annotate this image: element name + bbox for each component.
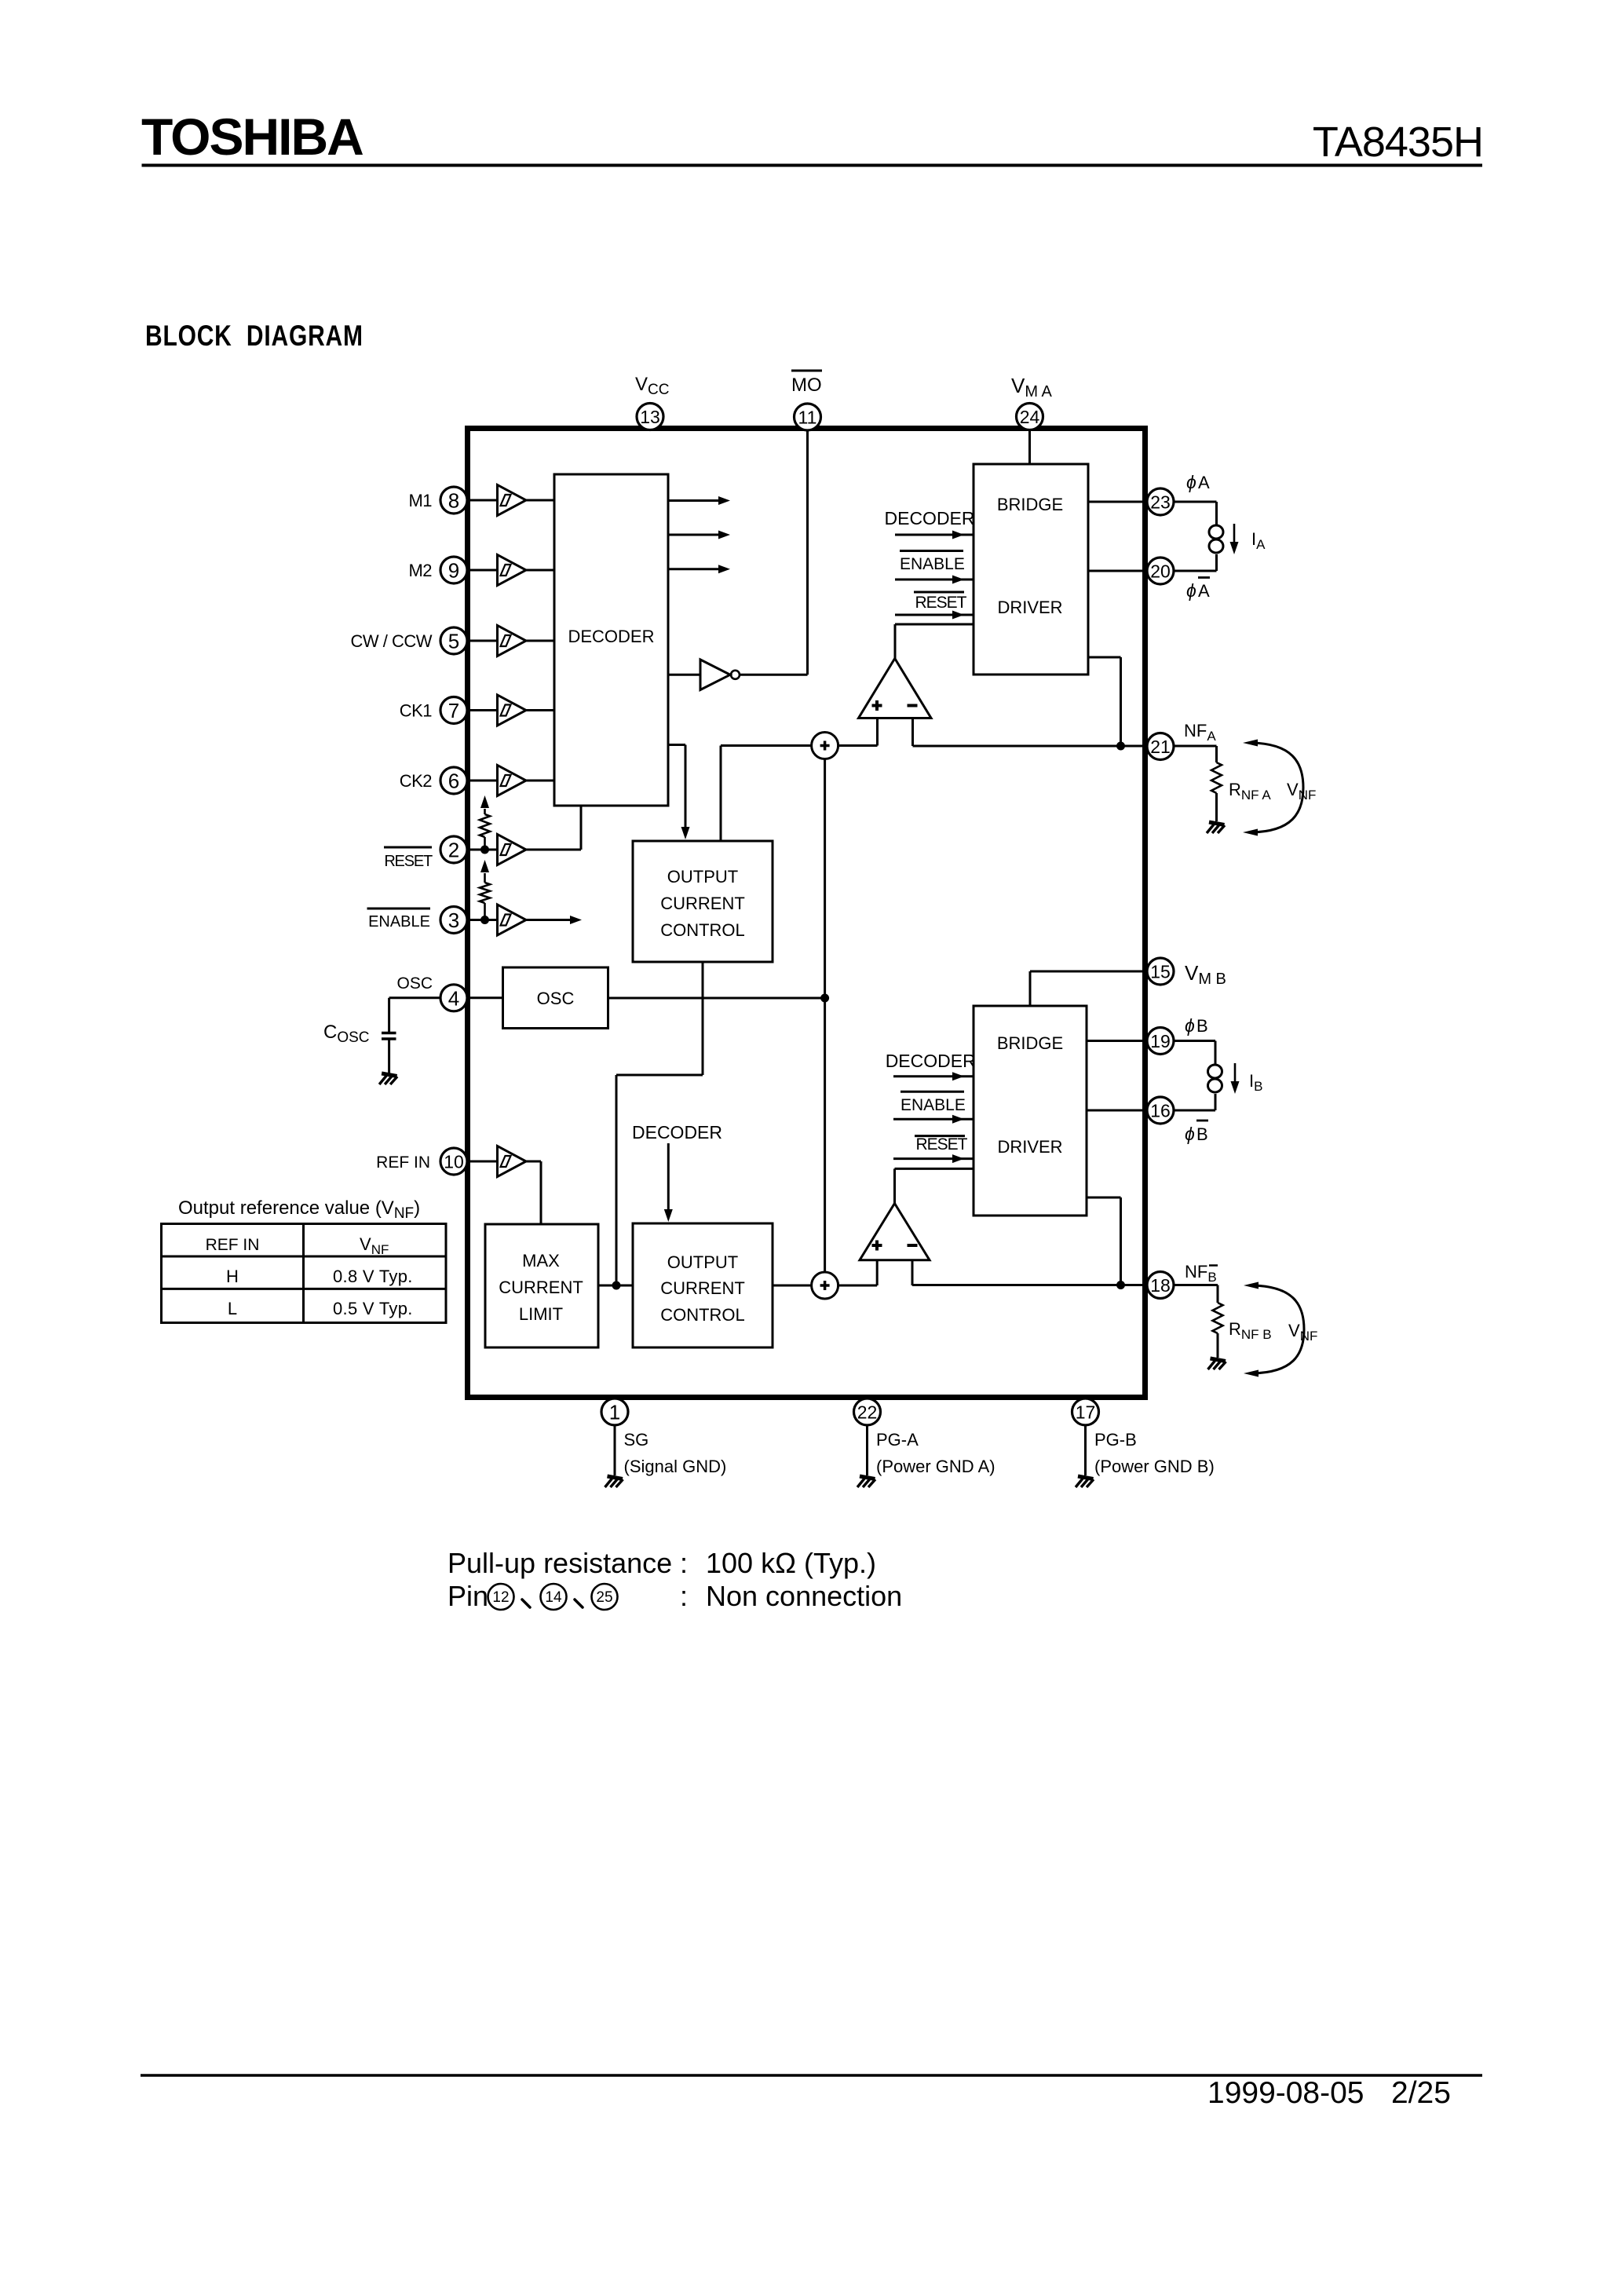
opamp-B input stubs [877, 1260, 912, 1285]
wire decoder to OCC-A stub [668, 745, 690, 840]
label (Power GND B) [1094, 1457, 1215, 1476]
label ENABLE arrow B [893, 1091, 974, 1123]
svg-text:CONTROL: CONTROL [660, 920, 745, 940]
part number TA8435H [1313, 119, 1483, 166]
label VNF A [1287, 780, 1316, 803]
svg-text:11: 11 [798, 408, 817, 428]
label PG-A [876, 1430, 919, 1450]
wire coil A to pin20 [1174, 554, 1217, 571]
table cell H [226, 1267, 239, 1286]
svg-text:10: 10 [444, 1152, 464, 1172]
label (Power GND A) [876, 1457, 995, 1476]
svg-text:OSC: OSC [396, 974, 433, 993]
wire buffer CK1 to decoder [526, 709, 554, 711]
pin 10 (REF IN) [440, 1148, 467, 1175]
svg-text:RESET: RESET [915, 594, 967, 612]
label VMB [1185, 961, 1226, 988]
label RNF B [1229, 1319, 1272, 1342]
svg-text:15: 15 [1150, 962, 1171, 982]
wire buffer REFIN to max-current-limit [526, 1161, 541, 1224]
capacitor COSC [382, 1033, 396, 1074]
pin 7 (CK1) [440, 697, 467, 724]
wire VMA to bridge A [1028, 430, 1031, 464]
block BRIDGE DRIVER A [974, 464, 1088, 675]
svg-text:CURRENT: CURRENT [499, 1278, 583, 1297]
svg-text:0.8 V Typ.: 0.8 V Typ. [333, 1267, 413, 1286]
svg-text:5: 5 [448, 630, 459, 653]
svg-text::: : [680, 1547, 688, 1579]
label M1 [408, 491, 432, 510]
svg-text:9: 9 [448, 559, 459, 583]
svg-text:CW / CCW: CW / CCW [350, 631, 432, 651]
svg-text::: : [680, 1580, 688, 1612]
table title Output reference value [178, 1197, 420, 1222]
node dot NF-B [1116, 1281, 1125, 1289]
svg-text:(Power GND A): (Power GND A) [876, 1457, 995, 1476]
ground for pin 17 [1076, 1476, 1094, 1487]
label ENABLE with overline [367, 909, 431, 930]
svg-text:23: 23 [1150, 492, 1171, 513]
wire buffer CW / CCW to decoder [526, 640, 554, 642]
wire pin3 to buffer [468, 919, 498, 921]
svg-text:LIMIT: LIMIT [519, 1304, 563, 1324]
svg-text:MO: MO [791, 375, 822, 396]
wire NF-A line [913, 745, 1147, 748]
wire pin4 to COSC [389, 998, 440, 1032]
svg-text:B: B [1196, 1016, 1208, 1036]
pin 6 (CK2) [440, 767, 467, 794]
label NFA [1184, 721, 1216, 744]
wire OCC-B to summing B [773, 1285, 812, 1287]
svg-text:4: 4 [448, 986, 459, 1010]
pin 3 (ENABLE) [440, 907, 467, 934]
svg-text:MAX: MAX [522, 1251, 560, 1270]
wire RNFA to ground [1215, 793, 1218, 821]
VNF arc arrow B [1244, 1282, 1304, 1377]
pin 22 (PG-A) [854, 1398, 881, 1425]
pin 21 (NF A) [1147, 733, 1174, 760]
svg-text:CK1: CK1 [400, 701, 433, 721]
wire driver-B stub to NF-B node [1087, 1197, 1121, 1285]
svg-text:ENABLE: ENABLE [368, 913, 430, 930]
block OUTPUT CURRENT CONTROL B [633, 1223, 773, 1347]
svg-text:DECODER: DECODER [885, 508, 975, 528]
svg-text:REF IN: REF IN [206, 1236, 260, 1254]
resistor RNFA [1211, 762, 1222, 793]
wire buffer RESET to decoder bottom [526, 806, 581, 850]
input buffer CK1 [498, 695, 527, 726]
node dot OSC line [820, 994, 829, 1003]
opamp-A input stubs [878, 718, 913, 747]
svg-text:TOSHIBA: TOSHIBA [141, 108, 363, 166]
svg-text:BRIDGE: BRIDGE [997, 1033, 1063, 1053]
label OCC-A text [660, 867, 745, 940]
svg-text:18: 18 [1150, 1275, 1171, 1296]
block OSC [503, 967, 608, 1029]
svg-text:(Power GND B): (Power GND B) [1094, 1457, 1215, 1476]
pin 8 (M1) [440, 487, 467, 514]
svg-text:TA8435H: TA8435H [1313, 119, 1483, 166]
pull-up resistor on ENABLE [480, 860, 490, 920]
svg-text:RESET: RESET [384, 853, 433, 870]
title BLOCK DIAGRAM [145, 320, 363, 352]
block DECODER U1 [554, 474, 668, 806]
label COSC [323, 1022, 370, 1046]
svg-text:OUTPUT: OUTPUT [667, 1252, 738, 1272]
svg-text:Non connection: Non connection [706, 1580, 902, 1612]
label CW / CCW [350, 631, 432, 651]
svg-text:ENABLE: ENABLE [900, 555, 965, 573]
pin 1 (SG) [601, 1398, 628, 1425]
table cell 0.5V [333, 1299, 413, 1318]
label DRIVER A [997, 598, 1062, 617]
note pull-up resistance [448, 1547, 876, 1579]
table cell 0.8V [333, 1267, 413, 1286]
label DECODER inside [568, 627, 654, 646]
decoder output arrow 1 [668, 496, 730, 505]
label DECODER B arrow down [632, 1122, 722, 1222]
svg-text:DRIVER: DRIVER [997, 598, 1062, 617]
resistor RNFB [1213, 1303, 1223, 1333]
table box [162, 1224, 447, 1323]
svg-text:L: L [228, 1299, 237, 1318]
block MAX CURRENT LIMIT [485, 1224, 598, 1347]
table header VNF [360, 1234, 389, 1257]
wire buffer CK2 to decoder [526, 780, 554, 782]
wire pin7 to buffer [468, 709, 498, 711]
wire pin19 to coil B [1174, 1041, 1216, 1065]
svg-text:1999-08-05: 1999-08-05 [1207, 2076, 1364, 2110]
svg-text:BRIDGE: BRIDGE [997, 495, 1063, 514]
svg-text:22: 22 [857, 1402, 878, 1423]
wire inverter to MO line [740, 674, 808, 676]
pin 20 (phi A bar) [1147, 558, 1174, 584]
svg-text:DECODER: DECODER [886, 1051, 976, 1071]
wire summing-B to opamp-B plus [838, 1285, 878, 1287]
pin 24 (VMA) [1017, 404, 1043, 430]
svg-text:ϕ: ϕ [1186, 472, 1196, 492]
svg-text:20: 20 [1150, 561, 1171, 582]
svg-text:ϕ: ϕ [1185, 1015, 1195, 1036]
pin 2 (RESET) [440, 836, 467, 863]
wire pin18 to RNFB [1174, 1285, 1218, 1303]
block BRIDGE DRIVER B [974, 1006, 1087, 1216]
wire pin2 to buffer [468, 849, 498, 851]
svg-text:(Signal GND): (Signal GND) [624, 1457, 727, 1476]
pin 23 (phi A) [1147, 488, 1174, 515]
wire summing-A to OCC-A [721, 746, 812, 842]
svg-text:Pin: Pin [448, 1580, 488, 1612]
input buffer CK2 [498, 766, 527, 796]
label REF IN [376, 1153, 430, 1172]
header rule [142, 164, 1483, 167]
label SG [624, 1430, 649, 1450]
svg-text:17: 17 [1076, 1402, 1096, 1423]
current arrow IB [1231, 1063, 1240, 1094]
svg-text:Pull-up resistance: Pull-up resistance [448, 1547, 672, 1579]
svg-text:6: 6 [448, 770, 459, 793]
label VNF B [1288, 1321, 1317, 1344]
label BRIDGE B [997, 1033, 1063, 1053]
svg-text:16: 16 [1150, 1101, 1171, 1121]
svg-text:25: 25 [596, 1589, 612, 1606]
ground for RNFB [1208, 1358, 1226, 1369]
svg-text:M1: M1 [408, 491, 432, 510]
label ENABLE arrow A [895, 551, 974, 584]
svg-text:DECODER: DECODER [568, 627, 654, 646]
label OSC [396, 974, 433, 993]
label OSC inside [537, 989, 575, 1008]
wire pin4 to OSC box [468, 996, 503, 999]
svg-text:A: A [1198, 581, 1210, 601]
label MO with overline [791, 371, 822, 396]
label CK1 [400, 701, 433, 721]
svg-text:8: 8 [448, 489, 459, 513]
wire driver-A stub to NF node [1088, 657, 1121, 746]
svg-text:2: 2 [448, 839, 459, 862]
block OUTPUT CURRENT CONTROL A [633, 841, 773, 962]
svg-text:CURRENT: CURRENT [660, 1278, 745, 1298]
svg-text:13: 13 [640, 407, 660, 427]
pull-up resistor on RESET [480, 795, 490, 850]
pin 5 (CW / CCW) [440, 627, 467, 654]
wire pin5 to buffer [468, 640, 498, 642]
input buffer M2 [498, 555, 527, 586]
wire MO vertical [806, 431, 809, 675]
wire pin21 to RNFA [1174, 746, 1217, 762]
label IB [1249, 1071, 1262, 1094]
wire decoder to inverter [668, 674, 700, 676]
label DECODER arrow B [886, 1051, 976, 1080]
svg-text:CONTROL: CONTROL [660, 1305, 745, 1325]
wire buffer ENABLE output arrow [526, 916, 582, 924]
label RNF A [1229, 780, 1271, 803]
wire buffer M1 to decoder [526, 499, 554, 502]
wire bridge-A to pin23 [1088, 501, 1147, 503]
wire coil B to pin16 [1174, 1094, 1216, 1110]
op-amp B comparator [860, 1204, 930, 1260]
node dot on RESET wire [480, 846, 489, 854]
pin 15 (VMB) [1147, 958, 1174, 985]
ground for RNFA [1207, 822, 1225, 833]
svg-text:SG: SG [624, 1430, 649, 1450]
label IA [1251, 529, 1266, 552]
inductor coil A [1209, 525, 1223, 553]
label RESET arrow A [895, 592, 974, 620]
wire pin17 ground stem [1084, 1426, 1087, 1476]
svg-text:A: A [1198, 473, 1210, 492]
wire pin6 to buffer [468, 780, 498, 782]
wire pin22 ground stem [866, 1426, 868, 1476]
label BRIDGE A [997, 495, 1063, 514]
footer date and page [1207, 2076, 1451, 2110]
label MCL text [499, 1251, 583, 1324]
node dot on ENABLE wire [480, 916, 489, 924]
ground for COSC [379, 1073, 397, 1084]
wire NF-B line [912, 1284, 1147, 1286]
wire pin8 to buffer [468, 499, 498, 502]
svg-text:21: 21 [1150, 737, 1171, 757]
VNF arc arrow A [1243, 740, 1303, 836]
pin 17 (PG-B) [1072, 1398, 1099, 1425]
summing junction A [812, 733, 838, 759]
wire OSC out to node [608, 997, 825, 1000]
wire RNFB to ground [1217, 1333, 1219, 1358]
wire VMB to bridge B [1030, 971, 1147, 1006]
wire bridge-B to pin16 [1087, 1110, 1147, 1112]
wire buffer M2 to decoder [526, 569, 554, 572]
svg-text:Output reference value (VNF): Output reference value (VNF) [178, 1197, 420, 1222]
wire bridge-B to pin19 [1087, 1040, 1147, 1042]
svg-text:CK2: CK2 [400, 771, 433, 791]
pin 18 (NF B) [1147, 1272, 1174, 1299]
wire vertical summing A to B via OSC node [824, 759, 826, 1273]
svg-text:1: 1 [609, 1401, 620, 1424]
table cell L [228, 1299, 237, 1318]
wire pin10 to buffer [468, 1161, 498, 1163]
svg-text:ϕ: ϕ [1186, 580, 1196, 601]
wire pin1 ground stem [614, 1426, 616, 1476]
svg-text:19: 19 [1150, 1031, 1171, 1051]
node dot NF-A [1116, 742, 1125, 751]
svg-text:14: 14 [545, 1589, 562, 1606]
svg-text:BLOCK DIAGRAM: BLOCK DIAGRAM [145, 320, 363, 352]
svg-text:DRIVER: DRIVER [997, 1137, 1062, 1157]
pin 4 (OSC) [440, 985, 467, 1011]
decoder output arrow 2 [668, 531, 730, 539]
pin 9 (M2) [440, 557, 467, 583]
label DECODER arrow A [885, 508, 975, 539]
current arrow IA [1230, 524, 1239, 554]
pin 11 (MO) [795, 404, 821, 430]
ground for pin 1 [605, 1476, 623, 1487]
svg-text:OUTPUT: OUTPUT [667, 867, 738, 887]
inverter gate [700, 660, 740, 690]
svg-text:3: 3 [448, 909, 459, 932]
wire summing-A to opamp-A plus [838, 744, 878, 747]
svg-text:M2: M2 [408, 561, 432, 580]
svg-text:PG-B: PG-B [1094, 1430, 1137, 1450]
op-amp A comparator [859, 659, 932, 718]
wire MCL to OCC-B [598, 1285, 633, 1287]
wire pin9 to buffer [468, 569, 498, 572]
svg-text:24: 24 [1020, 407, 1040, 427]
svg-text:B: B [1196, 1124, 1208, 1144]
label PG-B [1094, 1430, 1137, 1450]
summing junction B [812, 1272, 838, 1299]
svg-text:2/25: 2/25 [1391, 2076, 1451, 2110]
pin 19 (phi B) [1147, 1028, 1174, 1055]
label RESET with overline [384, 847, 433, 870]
svg-text:7: 7 [448, 699, 459, 722]
svg-text:CURRENT: CURRENT [660, 894, 745, 913]
TOSHIBA logo [141, 108, 363, 166]
svg-text:12: 12 [492, 1589, 509, 1606]
svg-text:ENABLE: ENABLE [901, 1096, 966, 1114]
svg-text:0.5 V Typ.: 0.5 V Typ. [333, 1299, 413, 1318]
svg-text:PG-A: PG-A [876, 1430, 919, 1450]
svg-text:H: H [226, 1267, 239, 1286]
wire opamp-B output to driver B [895, 1168, 974, 1203]
pin 13 (VCC) [637, 404, 663, 430]
input buffer ENABLE [498, 905, 527, 935]
inductor coil B [1208, 1065, 1222, 1092]
label phi-B [1185, 1015, 1208, 1036]
table header REF IN [206, 1236, 260, 1254]
label phi-B-bar [1185, 1121, 1208, 1144]
svg-text:OSC: OSC [537, 989, 575, 1008]
pin 16 (phi B bar) [1147, 1097, 1174, 1124]
svg-text:100 kΩ (Typ.): 100 kΩ (Typ.) [706, 1547, 876, 1579]
wire bridge-A to pin20 [1088, 570, 1147, 572]
IC outline box [468, 429, 1145, 1398]
svg-text:ϕ: ϕ [1185, 1124, 1195, 1144]
input buffer REF IN [498, 1146, 527, 1177]
input buffer RESET [498, 835, 527, 865]
label VMA [1011, 374, 1052, 400]
label M2 [408, 561, 432, 580]
footer rule [141, 2074, 1482, 2077]
label phi-A-bar [1186, 578, 1210, 601]
label CK2 [400, 771, 433, 791]
ground for pin 22 [857, 1476, 875, 1487]
label VCC [635, 374, 669, 398]
label (Signal GND) [624, 1457, 727, 1476]
label phi-A [1186, 472, 1210, 492]
wire opamp-A output to driver [895, 624, 974, 659]
label NFB [1185, 1262, 1218, 1285]
label RESET arrow B [893, 1135, 974, 1163]
svg-text:RESET: RESET [916, 1135, 968, 1153]
label DRIVER B [997, 1137, 1062, 1157]
note non connection pins [448, 1580, 902, 1612]
input buffer CW / CCW [498, 626, 527, 656]
wire pin23 to coil A [1174, 502, 1217, 525]
label OCC-B text [660, 1252, 745, 1325]
svg-text:DECODER: DECODER [632, 1122, 722, 1143]
svg-text:REF IN: REF IN [376, 1153, 430, 1172]
node dot between MCL and OCC-B [612, 1281, 621, 1290]
wire OCC-A bottom path to node [616, 962, 703, 1285]
input buffer M1 [498, 485, 527, 516]
decoder output arrow 3 [668, 565, 730, 573]
